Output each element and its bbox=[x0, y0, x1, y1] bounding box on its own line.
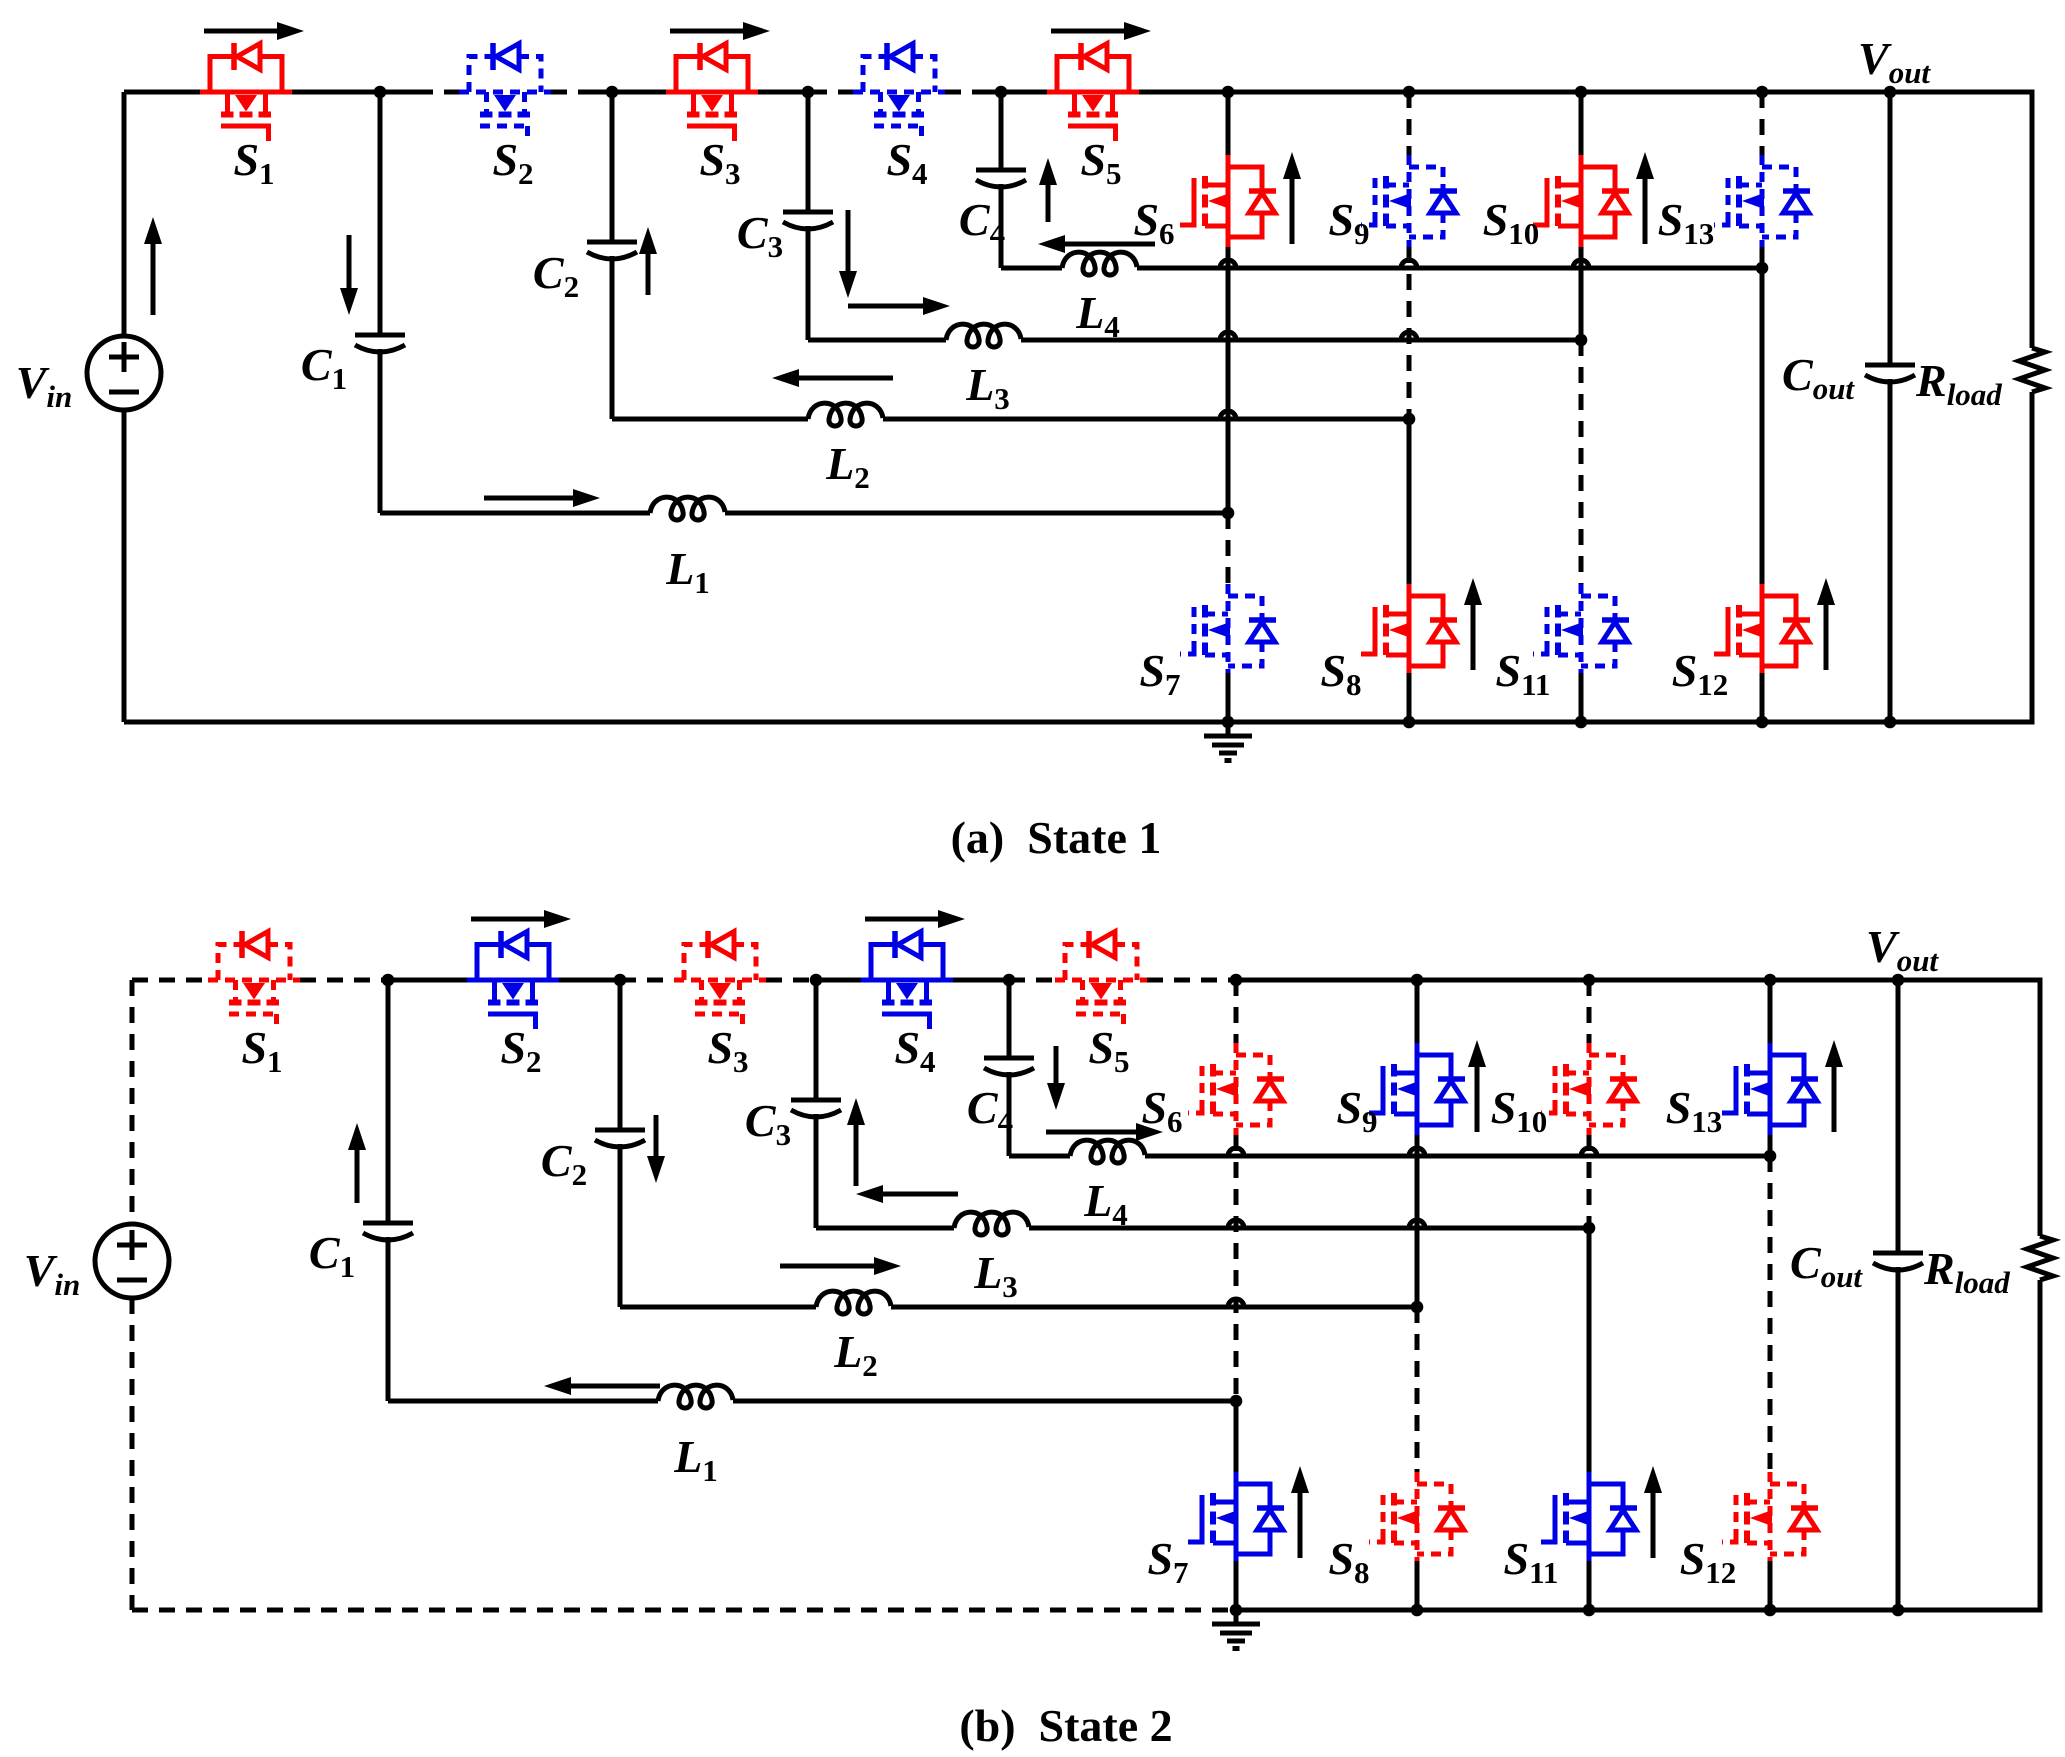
arrow: L2 current (state 2) bbox=[780, 1264, 874, 1269]
wire: L3 row from inductor to switch column (state 1) bbox=[1021, 338, 1581, 343]
wire: top rail segment (state 2) bbox=[132, 978, 208, 983]
switch S10 (MOSFET with body diode) (state 1) bbox=[1533, 155, 1629, 247]
capacitor C3 (state 1) bbox=[783, 212, 833, 229]
switch S9 (MOSFET with body diode) (state 2) bbox=[1369, 1043, 1465, 1135]
crossover hop on L3 row at x=1409 (state 1) bbox=[1401, 332, 1417, 340]
arrow: C4 current (state 2) bbox=[1054, 1046, 1059, 1083]
switch S4 (MOSFET with body diode) (state 1) bbox=[853, 43, 945, 141]
wire: top rail segment (state 2) bbox=[953, 978, 1009, 983]
ground symbol (state 2) bbox=[1212, 1610, 1260, 1649]
wire: input left vertical from Vin to bottom rail (state 1) bbox=[122, 410, 127, 722]
arrow: current through S3 (state 1) bbox=[670, 29, 743, 34]
wire: C3 branch upper (state 2) bbox=[814, 980, 819, 1100]
wire: L4 row from inductor to switch column (state 2) bbox=[1145, 1154, 1770, 1159]
wire: C3 branch upper (state 1) bbox=[806, 92, 811, 212]
wire: top rail segment (state 1) bbox=[758, 90, 808, 95]
inductor L2 (state 1) bbox=[808, 403, 883, 426]
capacitor C2 (state 1) bbox=[587, 242, 637, 259]
junction: L3 to switch column (state 2) bbox=[1583, 1222, 1596, 1235]
wire: input left vertical from Vin to top rail (state 2) bbox=[130, 980, 135, 1224]
arrow: current through S1 (state 1) bbox=[204, 29, 277, 34]
inductor L1 (state 2) bbox=[658, 1385, 733, 1408]
arrow: current through S2 (state 2) bbox=[471, 917, 544, 922]
switch S11 (MOSFET with body diode) (state 1) bbox=[1533, 584, 1629, 676]
junction: L2 to switch column (state 1) bbox=[1403, 413, 1416, 426]
wire: C2 branch lower (state 1) bbox=[610, 256, 615, 419]
wire: C4 branch lower (state 1) bbox=[999, 184, 1004, 268]
ground symbol (state 1) bbox=[1204, 722, 1252, 761]
junction: top rail / S6 leg branch (state 2) bbox=[1230, 974, 1243, 987]
wire: input left vertical from Vin to bottom rail (state 2) bbox=[130, 1298, 135, 1610]
junction: top rail / C3 branch (state 2) bbox=[810, 974, 823, 987]
svg-text:(b) State 2: (b) State 2 bbox=[959, 1700, 1172, 1751]
switch S13 (MOSFET with body diode) (state 1) bbox=[1714, 155, 1810, 247]
wire: input left vertical from Vin to top rail (state 1) bbox=[122, 92, 127, 336]
switch S3 (MOSFET with body diode) (state 1) bbox=[666, 43, 758, 141]
switch S6 (MOSFET with body diode) (state 1) bbox=[1180, 155, 1276, 247]
crossover hop on L4 row at x=1417 (state 2) bbox=[1409, 1148, 1425, 1156]
switch S9 (MOSFET with body diode) (state 1) bbox=[1361, 155, 1457, 247]
crossover hop on L2 row at x=1236 (state 2) bbox=[1228, 1299, 1244, 1307]
wire: top rail segment (state 1) bbox=[811, 90, 853, 95]
junction: top rail / S13 leg branch (state 2) bbox=[1764, 974, 1777, 987]
switch S13 (MOSFET with body diode) (state 2) bbox=[1722, 1043, 1818, 1135]
wire: L1 row from capacitor corner to inductor (state 2) bbox=[388, 1399, 658, 1404]
svg-text:(a) State 1: (a) State 1 bbox=[951, 812, 1162, 863]
wire: C3 branch lower (state 2) bbox=[814, 1114, 819, 1228]
wire: right edge lower (load branch) (state 2) bbox=[2038, 1280, 2043, 1613]
wire: column S12 lower (state 1) bbox=[1760, 673, 1765, 722]
arrow: L3 current (state 1) bbox=[848, 304, 923, 309]
junction: L1 to switch column (state 1) bbox=[1222, 507, 1235, 520]
wire: column S10 upper (state 2) bbox=[1587, 980, 1592, 1043]
capacitor C1 (state 2) bbox=[363, 1223, 413, 1240]
junction: bottom rail / S12 leg (state 2) bbox=[1764, 1604, 1777, 1617]
resistor Rload (state 2) bbox=[2027, 1236, 2053, 1280]
arrow: current through S10 (state 1) bbox=[1643, 179, 1648, 244]
wire: column S6/S7 middle (state 1) bbox=[1226, 247, 1231, 513]
switch S8 (MOSFET with body diode) (state 1) bbox=[1361, 584, 1457, 676]
wire: C2 branch upper (state 2) bbox=[618, 980, 623, 1130]
switch S6 (MOSFET with body diode) (state 2) bbox=[1188, 1043, 1284, 1135]
wire: top rail segment (state 2) bbox=[559, 978, 620, 983]
switch S12 (MOSFET with body diode) (state 2) bbox=[1722, 1472, 1818, 1564]
capacitor C1 (state 1) bbox=[355, 335, 405, 352]
arrow: C3 current (state 2) bbox=[854, 1125, 859, 1186]
switch S7 (MOSFET with body diode) (state 1) bbox=[1180, 584, 1276, 676]
junction: bottom rail / S11 leg (state 2) bbox=[1583, 1604, 1596, 1617]
switch S3 (MOSFET with body diode) (state 2) bbox=[674, 931, 766, 1029]
wire: top rail segment (state 1) bbox=[551, 90, 593, 95]
wire: column S6 upper (state 1) bbox=[1226, 92, 1231, 155]
wire: column S8 lower (state 2) bbox=[1415, 1561, 1420, 1610]
wire: Cout branch upper (state 2) bbox=[1896, 980, 1901, 1253]
crossover hop on L3 row at x=1228 (state 1) bbox=[1220, 332, 1236, 340]
crossover hop on L4 row at x=1589 (state 2) bbox=[1581, 1148, 1597, 1156]
wire: column S7 upper (state 1) bbox=[1226, 513, 1231, 587]
wire: C1 branch lower (state 2) bbox=[386, 1237, 391, 1401]
wire: Cout branch upper (state 1) bbox=[1888, 92, 1893, 365]
wire: L2 row from capacitor corner to inductor (state 2) bbox=[620, 1305, 816, 1310]
wire: L2 row from inductor to switch column (state 1) bbox=[883, 417, 1409, 422]
wire: Cout branch lower (state 1) bbox=[1888, 379, 1893, 722]
junction: bottom rail / S8 leg (state 1) bbox=[1403, 716, 1416, 729]
junction: top rail / S10 leg branch (state 1) bbox=[1575, 86, 1588, 99]
arrow: C1 current (state 2) bbox=[355, 1150, 360, 1203]
arrow: L4 current (state 1) bbox=[1065, 242, 1155, 247]
wire: column S10 lower (state 2) bbox=[1587, 1135, 1592, 1228]
wire: column S6 upper (state 2) bbox=[1234, 980, 1239, 1043]
junction: bottom rail / S11 leg (state 1) bbox=[1575, 716, 1588, 729]
crossover hop on L3 row at x=1417 (state 2) bbox=[1409, 1220, 1425, 1228]
arrow: current through S6 (state 1) bbox=[1290, 179, 1295, 244]
switch S4 (MOSFET with body diode) (state 2) bbox=[861, 931, 953, 1029]
wire: column S9 lower (state 2) bbox=[1415, 1135, 1420, 1307]
junction: top rail / C4 branch (state 1) bbox=[995, 86, 1008, 99]
wire: L2 row from capacitor corner to inductor (state 1) bbox=[612, 417, 808, 422]
wire: bottom rail (state 1) bbox=[124, 720, 2032, 725]
junction: top rail / S10 leg branch (state 2) bbox=[1583, 974, 1596, 987]
junction: L2 to switch column (state 2) bbox=[1411, 1301, 1424, 1314]
arrow: C4 current (state 1) bbox=[1046, 185, 1051, 222]
voltage source Vin (state 1) bbox=[87, 336, 161, 410]
switch S1 (MOSFET with body diode) (state 2) bbox=[208, 931, 300, 1029]
wire: C4 branch upper (state 1) bbox=[999, 92, 1004, 170]
inductor L3 (state 1) bbox=[946, 324, 1021, 347]
wire: top rail segment (state 1) bbox=[945, 90, 987, 95]
arrow: L4 current (state 2) bbox=[1046, 1130, 1136, 1135]
junction: top rail / C3 branch (state 1) bbox=[802, 86, 815, 99]
arrow: current through S11 (state 2) bbox=[1651, 1493, 1656, 1558]
wire: column S8 upper (state 2) bbox=[1415, 1307, 1420, 1475]
junction: top rail / C2 branch (state 2) bbox=[614, 974, 627, 987]
junction: bottom rail / ground node (state 2) bbox=[1230, 1604, 1243, 1617]
arrow: L3 current (state 2) bbox=[883, 1192, 958, 1197]
capacitor C3 (state 2) bbox=[791, 1100, 841, 1117]
switch S5 (MOSFET with body diode) (state 2) bbox=[1055, 931, 1147, 1029]
wire: column S6/S7 middle (state 2) bbox=[1234, 1135, 1239, 1401]
crossover hop on L2 row at x=1228 (state 1) bbox=[1220, 411, 1236, 419]
junction: L4 to switch column (state 1) bbox=[1756, 262, 1769, 275]
wire: right edge upper (load branch) (state 1) bbox=[2030, 90, 2035, 349]
wire: C2 branch upper (state 1) bbox=[610, 92, 615, 242]
wire: column S9 upper (state 1) bbox=[1407, 92, 1412, 155]
wire: C1 branch lower (state 1) bbox=[378, 349, 383, 513]
wire: column S8 lower (state 1) bbox=[1407, 673, 1412, 722]
wire: top rail segment (state 1) bbox=[612, 90, 666, 95]
arrow: current through S5 (state 1) bbox=[1051, 29, 1124, 34]
junction: bottom rail / Cout leg (state 1) bbox=[1884, 716, 1897, 729]
junction: top rail / C2 branch (state 1) bbox=[606, 86, 619, 99]
wire: top rail segment (state 1) bbox=[593, 90, 612, 95]
wire: L1 row from inductor to switch column (state 2) bbox=[733, 1399, 1236, 1404]
arrow: current through S8 (state 1) bbox=[1471, 605, 1476, 670]
capacitor Cout (state 1) bbox=[1865, 365, 1915, 382]
wire: column S9 lower (state 1) bbox=[1407, 247, 1412, 419]
wire: column S11 lower (state 2) bbox=[1587, 1561, 1592, 1610]
crossover hop on L4 row at x=1409 (state 1) bbox=[1401, 260, 1417, 268]
arrow: L1 current (state 1) bbox=[484, 496, 573, 501]
wire: top rail segment (state 1) bbox=[292, 90, 380, 95]
wire: L4 row from capacitor corner to inductor (state 2) bbox=[1009, 1154, 1070, 1159]
junction: top rail / Cout branch (state 2) bbox=[1892, 974, 1905, 987]
inductor L3 (state 2) bbox=[954, 1212, 1029, 1235]
wire: C2 branch lower (state 2) bbox=[618, 1144, 623, 1307]
wire: column S7 upper (state 2) bbox=[1234, 1401, 1239, 1475]
wire: column S8 upper (state 1) bbox=[1407, 419, 1412, 587]
wire: right edge lower (load branch) (state 1) bbox=[2030, 392, 2035, 725]
switch S12 (MOSFET with body diode) (state 1) bbox=[1714, 584, 1810, 676]
junction: top rail / S6 leg branch (state 1) bbox=[1222, 86, 1235, 99]
wire: bottom rail left (idle) (state 2) bbox=[132, 1608, 1236, 1613]
arrow: current through S9 (state 2) bbox=[1475, 1067, 1480, 1132]
junction: top rail / C4 branch (state 2) bbox=[1003, 974, 1016, 987]
wire: L3 row from inductor to switch column (state 2) bbox=[1029, 1226, 1589, 1231]
wire: top rail segment (state 2) bbox=[620, 978, 674, 983]
inductor L4 (state 2) bbox=[1070, 1140, 1145, 1163]
wire: column S10 upper (state 1) bbox=[1579, 92, 1584, 155]
wire: column S11 upper (state 2) bbox=[1587, 1228, 1592, 1475]
junction: top rail / Cout branch (state 1) bbox=[1884, 86, 1897, 99]
wire: top rail segment (state 1) bbox=[380, 90, 417, 95]
wire: right edge upper (load branch) (state 2) bbox=[2038, 978, 2043, 1237]
wire: top rail segment (state 2) bbox=[1147, 978, 1236, 983]
inductor L4 (state 1) bbox=[1062, 252, 1137, 275]
wire: column S11 lower (state 1) bbox=[1579, 673, 1584, 722]
wire: C1 branch upper (state 2) bbox=[386, 980, 391, 1223]
switch S8 (MOSFET with body diode) (state 2) bbox=[1369, 1472, 1465, 1564]
switch S10 (MOSFET with body diode) (state 2) bbox=[1541, 1043, 1637, 1135]
switch S1 (MOSFET with body diode) (state 1) bbox=[200, 43, 292, 141]
capacitor C2 (state 2) bbox=[595, 1130, 645, 1147]
wire: column S13 lower (state 2) bbox=[1768, 1135, 1773, 1156]
arrow: current through S12 (state 1) bbox=[1824, 605, 1829, 670]
junction: top rail / C1 branch (state 2) bbox=[382, 974, 395, 987]
wire: column S12 upper (state 2) bbox=[1768, 1156, 1773, 1475]
arrow: L1 current (state 2) bbox=[571, 1384, 660, 1389]
wire: top rail segment (state 2) bbox=[300, 978, 388, 983]
wire: column S13 upper (state 2) bbox=[1768, 980, 1773, 1043]
resistor Rload (state 1) bbox=[2019, 348, 2045, 392]
capacitor Cout (state 2) bbox=[1873, 1253, 1923, 1270]
wire: Cout branch lower (state 2) bbox=[1896, 1267, 1901, 1610]
wire: column S7 lower (state 2) bbox=[1234, 1561, 1239, 1610]
wire: column S13 lower (state 1) bbox=[1760, 247, 1765, 268]
wire: top rail segment (state 2) bbox=[1236, 978, 2040, 983]
wire: L4 row from capacitor corner to inductor (state 1) bbox=[1001, 266, 1062, 271]
arrow: C3 current (state 1) bbox=[846, 210, 851, 271]
wire: C4 branch upper (state 2) bbox=[1007, 980, 1012, 1058]
wire: bottom rail right (state 2) bbox=[1236, 1608, 2040, 1613]
junction: bottom rail / S8 leg (state 2) bbox=[1411, 1604, 1424, 1617]
junction: bottom rail / Cout leg (state 2) bbox=[1892, 1604, 1905, 1617]
junction: top rail / S9 leg branch (state 2) bbox=[1411, 974, 1424, 987]
wire: L2 row from inductor to switch column (state 2) bbox=[891, 1305, 1417, 1310]
junction: L3 to switch column (state 1) bbox=[1575, 334, 1588, 347]
arrow: input current up (state 1) bbox=[151, 244, 156, 315]
crossover hop on L4 row at x=1228 (state 1) bbox=[1220, 260, 1236, 268]
wire: column S7 lower (state 1) bbox=[1226, 673, 1231, 722]
wire: top rail segment (state 2) bbox=[388, 978, 467, 983]
arrow: C1 current (state 1) bbox=[347, 235, 352, 288]
wire: L1 row from capacitor corner to inductor (state 1) bbox=[380, 511, 650, 516]
junction: bottom rail / S12 leg (state 1) bbox=[1756, 716, 1769, 729]
inductor L1 (state 1) bbox=[650, 497, 725, 520]
crossover hop on L4 row at x=1581 (state 1) bbox=[1573, 260, 1589, 268]
wire: top rail segment (state 1) bbox=[808, 90, 811, 95]
wire: top rail segment (state 1) bbox=[1139, 90, 2032, 95]
wire: C4 branch lower (state 2) bbox=[1007, 1072, 1012, 1156]
wire: top rail segment (state 1) bbox=[987, 90, 1001, 95]
switch S11 (MOSFET with body diode) (state 2) bbox=[1541, 1472, 1637, 1564]
arrow: current through S4 (state 2) bbox=[865, 917, 938, 922]
voltage source Vin (state 2) bbox=[95, 1224, 169, 1298]
wire: column S9 upper (state 2) bbox=[1415, 980, 1420, 1043]
wire: column S12 upper (state 1) bbox=[1760, 268, 1765, 587]
junction: L1 to switch column (state 2) bbox=[1230, 1395, 1243, 1408]
wire: L3 row from capacitor corner to inductor (state 2) bbox=[816, 1226, 954, 1231]
arrow: current through S13 (state 2) bbox=[1832, 1067, 1837, 1132]
switch S2 (MOSFET with body diode) (state 1) bbox=[459, 43, 551, 141]
switch S7 (MOSFET with body diode) (state 2) bbox=[1188, 1472, 1284, 1564]
arrow: L2 current (state 1) bbox=[799, 376, 893, 381]
wire: top rail segment (state 1) bbox=[124, 90, 200, 95]
wire: column S10 lower (state 1) bbox=[1579, 247, 1584, 340]
wire: column S11 upper (state 1) bbox=[1579, 340, 1584, 587]
arrow: C2 current (state 1) bbox=[646, 254, 651, 295]
wire: L4 row from inductor to switch column (state 1) bbox=[1137, 266, 1762, 271]
inductor L2 (state 2) bbox=[816, 1291, 891, 1314]
junction: L4 to switch column (state 2) bbox=[1764, 1150, 1777, 1163]
capacitor C4 (state 1) bbox=[976, 170, 1026, 187]
switch S2 (MOSFET with body diode) (state 2) bbox=[467, 931, 559, 1029]
switch S5 (MOSFET with body diode) (state 1) bbox=[1047, 43, 1139, 141]
wire: C3 branch lower (state 1) bbox=[806, 226, 811, 340]
wire: top rail segment (state 2) bbox=[816, 978, 861, 983]
junction: top rail / C1 branch (state 1) bbox=[374, 86, 387, 99]
junction: top rail / S9 leg branch (state 1) bbox=[1403, 86, 1416, 99]
arrow: C2 current (state 2) bbox=[654, 1115, 659, 1156]
wire: column S12 lower (state 2) bbox=[1768, 1561, 1773, 1610]
crossover hop on L3 row at x=1236 (state 2) bbox=[1228, 1220, 1244, 1228]
wire: top rail segment (state 2) bbox=[766, 978, 816, 983]
wire: L1 row from inductor to switch column (state 1) bbox=[725, 511, 1228, 516]
wire: column S13 upper (state 1) bbox=[1760, 92, 1765, 155]
wire: L3 row from capacitor corner to inductor (state 1) bbox=[808, 338, 946, 343]
capacitor C4 (state 2) bbox=[984, 1058, 1034, 1075]
wire: top rail segment (state 2) bbox=[1009, 978, 1055, 983]
junction: bottom rail / ground node (state 1) bbox=[1222, 716, 1235, 729]
arrow: current through S7 (state 2) bbox=[1298, 1493, 1303, 1558]
crossover hop on L4 row at x=1236 (state 2) bbox=[1228, 1148, 1244, 1156]
wire: C1 branch upper (state 1) bbox=[378, 92, 383, 335]
wire: top rail segment (state 1) bbox=[417, 90, 459, 95]
junction: top rail / S13 leg branch (state 1) bbox=[1756, 86, 1769, 99]
wire: top rail segment (state 1) bbox=[1001, 90, 1047, 95]
